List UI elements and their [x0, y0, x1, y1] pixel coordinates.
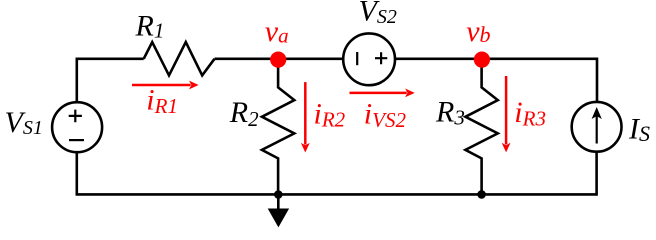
current arrow iR1 — [132, 84, 191, 87]
junction dot below R3 — [477, 190, 486, 199]
node b dot — [474, 52, 490, 68]
resistor R1 — [144, 42, 215, 75]
wire VS2 to node b — [395, 57, 482, 60]
wire node b to top-right corner, down to IS — [482, 59, 597, 102]
junction dot below R2 — [274, 190, 283, 199]
wire IS bottom lead + bottom rail + VS1 bottom lead — [77, 152, 597, 195]
current arrow iR2 — [304, 82, 307, 144]
resistor R3 (with leads) — [465, 60, 497, 194]
current arrow iVS2 — [350, 92, 407, 95]
current arrow iR3 — [505, 76, 508, 144]
wire top-left corner (VS1 top lead to R1) — [77, 59, 144, 103]
IS arrow — [596, 114, 598, 144]
ground — [277, 195, 280, 210]
wire R1 to node a — [215, 57, 279, 60]
VS2 minus terminal bar — [356, 52, 358, 65]
VS1 minus sign — [69, 139, 84, 141]
node a dot — [270, 52, 286, 68]
current source IS — [572, 102, 622, 152]
VS2 plus sign — [375, 52, 387, 64]
VS1 plus sign — [69, 110, 82, 123]
wire node a to VS2 — [278, 57, 343, 60]
resistor R2 (with leads) — [262, 60, 294, 194]
voltage source VS2 — [343, 33, 395, 85]
voltage source VS1 — [52, 102, 102, 152]
